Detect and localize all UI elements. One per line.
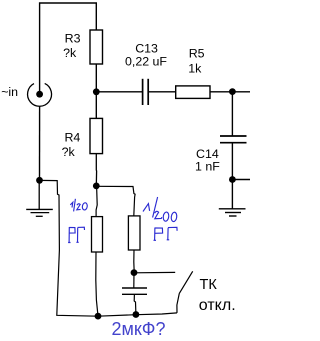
wire C14 to node C (231, 143, 233, 180)
node B junction dot (229, 88, 236, 95)
node C junction dot (229, 176, 236, 183)
label R3 ?k (63, 32, 80, 60)
wire top rail from input to R3 top (40, 3, 97, 91)
svg-text:1 nF: 1 nF (195, 159, 220, 173)
wire capacitor to node H (hand drawn) (134, 294, 136, 314)
svg-text:?k: ?k (63, 46, 77, 60)
wire node C down to ground (231, 180, 233, 209)
switch SW lower lead (hand drawn) (177, 293, 179, 313)
wire node C to right edge (232, 179, 250, 181)
potentiometer RV2 box (1/200) (128, 216, 140, 250)
wire R3 bottom to node A (95, 64, 97, 92)
svg-text:2мкФ?: 2мкФ? (112, 319, 166, 339)
wire node B to right edge (232, 91, 250, 93)
wire node D down to RV1 (hand drawn) (96, 186, 97, 217)
wire node G down to capacitor (133, 273, 135, 288)
wire RV2 bottom to node G (hand drawn) (133, 250, 135, 273)
wire R4 bottom to node D (95, 154, 97, 186)
label R4 ?k (62, 130, 81, 159)
svg-text:R5: R5 (189, 47, 205, 61)
capacitor C14 (220, 136, 247, 143)
svg-text:C13: C13 (135, 42, 158, 56)
wire node G to switch fixed contact (134, 271, 175, 273)
wire node A to C13 (96, 91, 142, 93)
wire RV1 bottom to node F (hand drawn) (96, 252, 98, 316)
potentiometer RV1 box (1/20) (92, 217, 103, 252)
wire node E right and down to bottom rail (hand drawn) (40, 180, 99, 316)
svg-text:0,22 uF: 0,22 uF (125, 55, 167, 69)
svg-text:1k: 1k (188, 62, 202, 76)
wire node A down to R4 (95, 92, 97, 119)
svg-text:~in: ~in (1, 85, 18, 99)
wire node E to ground stub (38, 180, 40, 209)
label C13 0,22 uF (125, 42, 167, 69)
label R5 1k (188, 47, 204, 76)
label 1/20 (blue handwritten) (70, 199, 87, 212)
resistor R4 (90, 118, 103, 153)
input jack J1 (~in) (28, 83, 52, 106)
ground right (219, 209, 246, 216)
svg-text:R3: R3 (65, 32, 81, 46)
node G junction dot (131, 269, 138, 276)
svg-text:R4: R4 (64, 130, 80, 144)
node A junction dot (93, 88, 100, 95)
label C14 1 nF (195, 147, 220, 173)
svg-text:ТК: ТК (200, 277, 218, 293)
svg-text:откл.: откл. (199, 297, 236, 314)
label 1/200 (blue handwritten) (143, 197, 177, 222)
node H junction dot (133, 311, 140, 318)
capacitor C13 (143, 79, 149, 105)
wire C13 to R5 (148, 91, 176, 93)
wire node D right then down to RV2 (hand drawn) (96, 186, 135, 216)
wire jack barrel down to node E (39, 106, 41, 180)
resistor R3 (90, 30, 103, 64)
wire R5 to node B (210, 91, 232, 93)
node F junction dot (95, 313, 102, 320)
resistor R5 (176, 86, 210, 99)
wire bottom rail node F to switch (98, 313, 177, 316)
label РГ right (blue handwritten) (154, 227, 178, 240)
capacitor 2uF (122, 288, 147, 294)
label РГ left (blue handwritten) (68, 227, 84, 243)
ground left (26, 209, 53, 216)
node E junction dot (36, 177, 43, 184)
svg-text:?k: ?k (62, 145, 76, 159)
wire node B down to C14 (231, 92, 233, 136)
switch SW blade (179, 271, 192, 293)
node D junction dot (93, 183, 100, 190)
